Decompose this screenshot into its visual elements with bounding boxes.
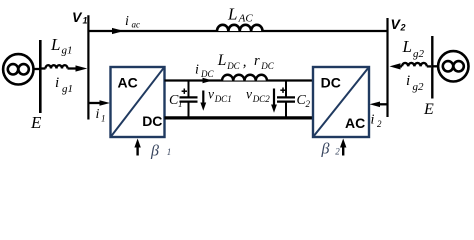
AC source left (infinite bus) bbox=[3, 54, 33, 84]
plus sign C1 bbox=[182, 89, 187, 94]
wire Lg2 to bus bar bbox=[427, 65, 431, 67]
current arrow iac bbox=[112, 28, 124, 34]
svg-text:L: L bbox=[217, 52, 227, 69]
control arrow beta1 bbox=[136, 144, 138, 156]
svg-text:1: 1 bbox=[178, 99, 183, 109]
wire V2 to converter 2 with arrow i2 bbox=[378, 103, 388, 105]
label Lg2 bbox=[402, 37, 425, 60]
svg-text:DC: DC bbox=[200, 69, 214, 79]
svg-text:L: L bbox=[227, 5, 237, 24]
inductor Lg2 bbox=[402, 63, 427, 67]
label beta1 bbox=[150, 143, 171, 160]
control arrow beta2 bbox=[342, 144, 344, 156]
svg-text:DC: DC bbox=[142, 113, 162, 129]
svg-text:L: L bbox=[402, 37, 412, 56]
svg-text:g1: g1 bbox=[62, 45, 73, 57]
label iac bbox=[125, 14, 140, 30]
infinity symbol left bbox=[8, 64, 29, 74]
wire Lg1 to node V1 with current arrow ig1 bbox=[68, 67, 79, 69]
svg-text:1: 1 bbox=[167, 147, 172, 157]
svg-text:i: i bbox=[406, 73, 410, 89]
svg-text:,: , bbox=[243, 54, 247, 70]
capacitor C2 bbox=[277, 81, 295, 118]
svg-text:g2: g2 bbox=[413, 48, 425, 60]
label V1 bbox=[72, 9, 88, 26]
svg-text:v: v bbox=[208, 87, 214, 102]
svg-text:2: 2 bbox=[377, 119, 382, 129]
svg-text:r: r bbox=[254, 53, 260, 69]
svg-text:1: 1 bbox=[101, 114, 106, 124]
svg-text:AC: AC bbox=[238, 13, 254, 25]
wire V1 to converter 1 with arrow i1 bbox=[88, 102, 101, 104]
svg-text:L: L bbox=[50, 35, 60, 54]
svg-text:2: 2 bbox=[335, 147, 340, 157]
label C1 bbox=[169, 93, 183, 109]
svg-text:g2: g2 bbox=[413, 81, 425, 93]
DC link top rail bbox=[165, 79, 314, 81]
node V2 vertical bus bbox=[386, 18, 388, 117]
bus bar E left bbox=[39, 40, 42, 113]
label ig1 bbox=[55, 75, 73, 95]
label V2 bbox=[391, 16, 406, 33]
svg-text:1: 1 bbox=[83, 16, 88, 26]
wire source1 to bus bar bbox=[34, 68, 41, 70]
svg-text:i: i bbox=[371, 113, 375, 128]
wire V2 to Lg2 with arrow ig2 bbox=[396, 65, 402, 67]
current arrow iDC bbox=[203, 78, 213, 84]
top AC tie line wire bbox=[88, 30, 387, 32]
svg-text:DC: DC bbox=[321, 75, 341, 91]
svg-text:DC: DC bbox=[226, 61, 240, 71]
label Lg1 bbox=[50, 35, 73, 57]
svg-text:DC: DC bbox=[260, 61, 274, 71]
converter U2 DC/AC bbox=[313, 67, 369, 137]
inductor Lg1 bbox=[46, 65, 68, 68]
svg-text:g1: g1 bbox=[62, 83, 73, 95]
converter U1 AC/DC bbox=[111, 67, 165, 137]
svg-text:ac: ac bbox=[132, 20, 141, 30]
label iDC bbox=[195, 63, 214, 80]
wire bar to inductor Lg1 bbox=[42, 67, 46, 69]
node V1 vertical bus bbox=[87, 15, 89, 119]
label LDC rDC bbox=[217, 52, 275, 71]
svg-text:β: β bbox=[150, 143, 159, 160]
label i2 bbox=[371, 113, 383, 130]
svg-text:DC2: DC2 bbox=[252, 94, 271, 104]
infinity symbol right bbox=[443, 61, 464, 71]
voltage arrow vDC1 bbox=[202, 91, 204, 106]
svg-text:E: E bbox=[30, 113, 42, 132]
svg-text:v: v bbox=[246, 87, 252, 102]
voltage arrow vDC2 bbox=[273, 89, 275, 108]
svg-text:AC: AC bbox=[118, 75, 138, 91]
inductor LDC bbox=[222, 75, 267, 81]
svg-text:DC1: DC1 bbox=[214, 94, 232, 104]
label vDC1 bbox=[208, 87, 232, 104]
capacitor C1 bbox=[180, 81, 198, 118]
DC link bottom rail bbox=[165, 116, 314, 119]
svg-text:E: E bbox=[423, 101, 434, 118]
svg-text:i: i bbox=[96, 107, 100, 122]
svg-text:i: i bbox=[55, 75, 59, 91]
label LAC bbox=[227, 5, 253, 25]
svg-text:2: 2 bbox=[400, 23, 406, 33]
svg-text:2: 2 bbox=[306, 99, 311, 109]
label i1 bbox=[96, 107, 106, 124]
inductor LAC bbox=[217, 25, 263, 31]
plus sign C2 bbox=[280, 88, 285, 93]
label vDC2 bbox=[246, 87, 270, 104]
label beta2 bbox=[321, 141, 341, 158]
AC source right (infinite bus) bbox=[438, 51, 468, 81]
wire bar to source 2 bbox=[434, 65, 439, 67]
svg-text:β: β bbox=[321, 141, 330, 158]
svg-text:AC: AC bbox=[345, 115, 365, 131]
svg-text:i: i bbox=[125, 14, 129, 29]
bus bar E right bbox=[431, 36, 433, 99]
label ig2 bbox=[406, 73, 424, 93]
svg-text:i: i bbox=[195, 63, 199, 78]
label C2 bbox=[297, 93, 311, 109]
